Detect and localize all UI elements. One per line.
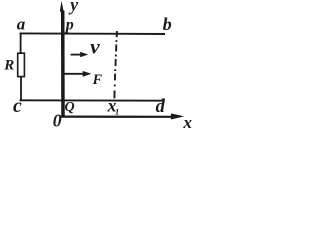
svg-text:x: x <box>182 113 192 129</box>
dash-dot line at x1 <box>114 31 117 98</box>
svg-text:1: 1 <box>115 106 119 116</box>
left wire upper segment <box>20 33 22 54</box>
y-axis arrowhead <box>60 1 64 12</box>
svg-text:p: p <box>64 17 74 34</box>
x-axis <box>60 115 172 117</box>
svg-text:R: R <box>3 57 14 73</box>
left wire lower segment <box>20 76 22 100</box>
velocity arrow v <box>71 54 82 56</box>
svg-text:c: c <box>13 95 22 117</box>
svg-text:y: y <box>68 0 78 15</box>
svg-text:F: F <box>92 72 103 88</box>
bottom rail wire c-d <box>20 99 164 101</box>
x-axis arrowhead <box>171 113 184 119</box>
force arrow F <box>64 73 84 75</box>
top rail wire a-b <box>20 32 166 35</box>
svg-text:Q: Q <box>65 100 75 115</box>
rod pQ on y-axis <box>61 11 65 117</box>
svg-text:v: v <box>90 34 100 58</box>
svg-text:0: 0 <box>53 111 62 129</box>
resistor R box <box>18 53 25 76</box>
svg-text:a: a <box>17 14 26 33</box>
svg-text:d: d <box>156 97 166 117</box>
svg-text:b: b <box>163 14 172 34</box>
